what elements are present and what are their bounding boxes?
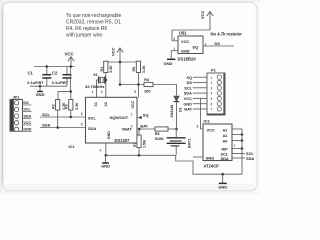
svg-text:VCC: VCC	[131, 101, 135, 109]
resistor R7	[138, 129, 140, 135]
ground (caps)	[39, 86, 41, 91]
svg-text:C1: C1	[28, 71, 34, 76]
svg-text:GND: GND	[183, 101, 192, 106]
wire VCC feed row	[120, 84, 144, 86]
svg-text:To use non-rechargeable: To use non-rechargeable	[66, 13, 122, 19]
wire VCC rail rtc	[106, 61, 139, 63]
svg-text:5: 5	[81, 122, 83, 126]
svg-text:3: 3	[131, 125, 133, 129]
svg-text:DQ: DQ	[193, 44, 199, 49]
svg-text:WP: WP	[222, 147, 229, 152]
wire DQ net	[203, 45, 234, 47]
svg-text:3.3K: 3.3K	[75, 102, 79, 110]
svg-text:U$1: U$1	[179, 31, 187, 36]
svg-text:GND: GND	[23, 128, 32, 132]
resistor R2	[57, 92, 59, 100]
svg-text:DS: DS	[215, 41, 221, 46]
svg-text:BAT: BAT	[184, 107, 192, 112]
svg-text:3: 3	[173, 37, 175, 41]
svg-text:VCC: VCC	[111, 47, 116, 56]
node SCL-R3	[70, 116, 73, 119]
svg-text:32.768kHz: 32.768kHz	[85, 84, 104, 89]
resistor R3	[70, 92, 72, 100]
svg-text:BAT1: BAT1	[188, 139, 192, 148]
svg-text:A0: A0	[223, 139, 228, 144]
wire SDA net	[40, 127, 86, 129]
ground (IC1)	[105, 155, 107, 163]
svg-text:R4, R6 replace R6: R4, R6 replace R6	[66, 26, 107, 32]
svg-text:5: 5	[211, 97, 213, 101]
svg-text:R7: R7	[133, 142, 137, 147]
svg-text:1: 1	[173, 47, 175, 51]
svg-text:DS18B20: DS18B20	[178, 56, 197, 61]
svg-text:GND: GND	[164, 61, 173, 66]
svg-text:510K: 510K	[155, 137, 164, 141]
resistor R1	[104, 61, 108, 72]
svg-text:VCC: VCC	[181, 39, 189, 44]
svg-text:R5: R5	[132, 67, 136, 72]
svg-text:DS: DS	[187, 80, 193, 85]
svg-text:7: 7	[131, 113, 133, 117]
svg-text:1: 1	[211, 76, 213, 80]
svg-text:GND: GND	[101, 163, 110, 168]
wire IC2 vcc	[201, 98, 204, 129]
node caps-rail junctions	[46, 65, 49, 68]
svg-text:SDA: SDA	[246, 156, 254, 161]
wire IC2 gnd stub	[193, 156, 203, 158]
svg-text:7: 7	[211, 108, 213, 112]
svg-text:VCC: VCC	[184, 96, 192, 101]
svg-text:SQ: SQ	[186, 75, 192, 80]
svg-text:VCC: VCC	[65, 52, 74, 57]
svg-text:2: 2	[101, 90, 103, 94]
svg-text:D1: D1	[178, 107, 182, 112]
wire VCC drop x71	[70, 67, 72, 92]
svg-text:GND: GND	[107, 131, 111, 139]
svg-text:SDA: SDA	[88, 126, 97, 131]
svg-text:IC2: IC2	[204, 119, 211, 124]
svg-text:3.3K: 3.3K	[109, 65, 113, 73]
svg-text:GND: GND	[218, 184, 227, 189]
svg-text:X1: X1	[93, 73, 98, 77]
svg-text:0.1uF/BT: 0.1uF/BT	[27, 80, 44, 85]
svg-text:2: 2	[211, 81, 213, 85]
svg-text:DS1307: DS1307	[115, 138, 131, 143]
svg-text:GND: GND	[181, 49, 190, 54]
svg-text:SDA: SDA	[42, 123, 51, 128]
svg-text:IC1: IC1	[69, 144, 76, 149]
svg-text:R3: R3	[65, 104, 69, 109]
svg-text:0.1uF/BT: 0.1uF/BT	[52, 80, 69, 85]
svg-text:A2: A2	[223, 127, 229, 132]
svg-text:6: 6	[81, 112, 83, 116]
wire caps bottom rail	[30, 85, 67, 87]
svg-text:SCL: SCL	[88, 115, 97, 120]
wire R6 to D1	[168, 128, 177, 130]
svg-text:R6: R6	[155, 132, 160, 136]
svg-text:3: 3	[211, 86, 213, 90]
svg-text:VCC: VCC	[200, 10, 205, 19]
U$1 pin GND	[171, 50, 178, 52]
diode D1	[174, 96, 180, 101]
svg-text:SCL: SCL	[23, 108, 31, 112]
battery BAT1	[175, 129, 177, 137]
svg-text:CR2032, remove R5, D1: CR2032, remove R5, D1	[66, 20, 121, 26]
resistor R5	[136, 61, 140, 72]
svg-text:R2: R2	[52, 104, 56, 109]
svg-text:SCL: SCL	[184, 85, 192, 90]
svg-text:6: 6	[211, 102, 213, 106]
svg-text:C2: C2	[52, 71, 58, 76]
svg-text:4: 4	[100, 149, 102, 153]
ground (ds18b20)	[170, 51, 172, 59]
wire SQ stub	[137, 117, 142, 119]
svg-text:X1: X1	[94, 102, 98, 106]
svg-text:200: 200	[144, 90, 150, 94]
node SDA-R2	[56, 126, 59, 129]
svg-text:BAT: BAT	[140, 124, 148, 129]
svg-text:8: 8	[197, 124, 199, 128]
svg-text:P1: P1	[211, 68, 217, 73]
wire gnd rail	[106, 154, 176, 156]
svg-text:SQW/OUT: SQW/OUT	[110, 115, 129, 120]
svg-text:SQ: SQ	[143, 113, 149, 118]
svg-text:VCC: VCC	[23, 121, 31, 125]
U$1 pin VCC	[172, 40, 178, 42]
wire R4 to D1 top	[153, 85, 177, 96]
svg-text:GND: GND	[36, 92, 45, 97]
svg-text:with jumper wire.: with jumper wire.	[66, 33, 104, 39]
resistor R6	[155, 127, 168, 131]
svg-text:No 4.7k resistor: No 4.7k resistor	[211, 31, 243, 36]
svg-text:R1: R1	[100, 67, 104, 72]
svg-text:SDA: SDA	[221, 156, 229, 161]
wire bat to gnd2	[176, 155, 242, 174]
ground (IC2)	[222, 174, 224, 183]
wire VBAT stub	[137, 128, 155, 130]
svg-text:GND: GND	[206, 156, 215, 161]
svg-text:1.5M: 1.5M	[142, 140, 146, 148]
svg-text:7: 7	[234, 144, 236, 148]
svg-text:SDA: SDA	[23, 114, 31, 118]
svg-text:VCC: VCC	[207, 127, 215, 132]
svg-text:X2: X2	[104, 102, 108, 106]
wire SCL net	[40, 116, 86, 118]
svg-text:1N4148: 1N4148	[170, 105, 174, 118]
wire A-bus	[241, 129, 243, 174]
svg-text:1: 1	[92, 90, 94, 94]
svg-text:SDA: SDA	[184, 91, 192, 96]
wire VCC rail caps	[34, 66, 75, 68]
svg-text:3.3K: 3.3K	[142, 65, 146, 73]
ic DS1307 body	[86, 97, 138, 143]
svg-text:DS: DS	[23, 101, 29, 105]
svg-text:AT24CP: AT24CP	[204, 164, 220, 169]
node gnd2	[221, 173, 224, 176]
svg-text:SCL: SCL	[42, 112, 51, 117]
svg-text:4: 4	[211, 92, 213, 96]
svg-text:JP1: JP1	[13, 94, 21, 99]
svg-text:8: 8	[134, 90, 136, 94]
svg-text:A1: A1	[223, 133, 229, 138]
wire IC1 gnd	[105, 143, 107, 155]
